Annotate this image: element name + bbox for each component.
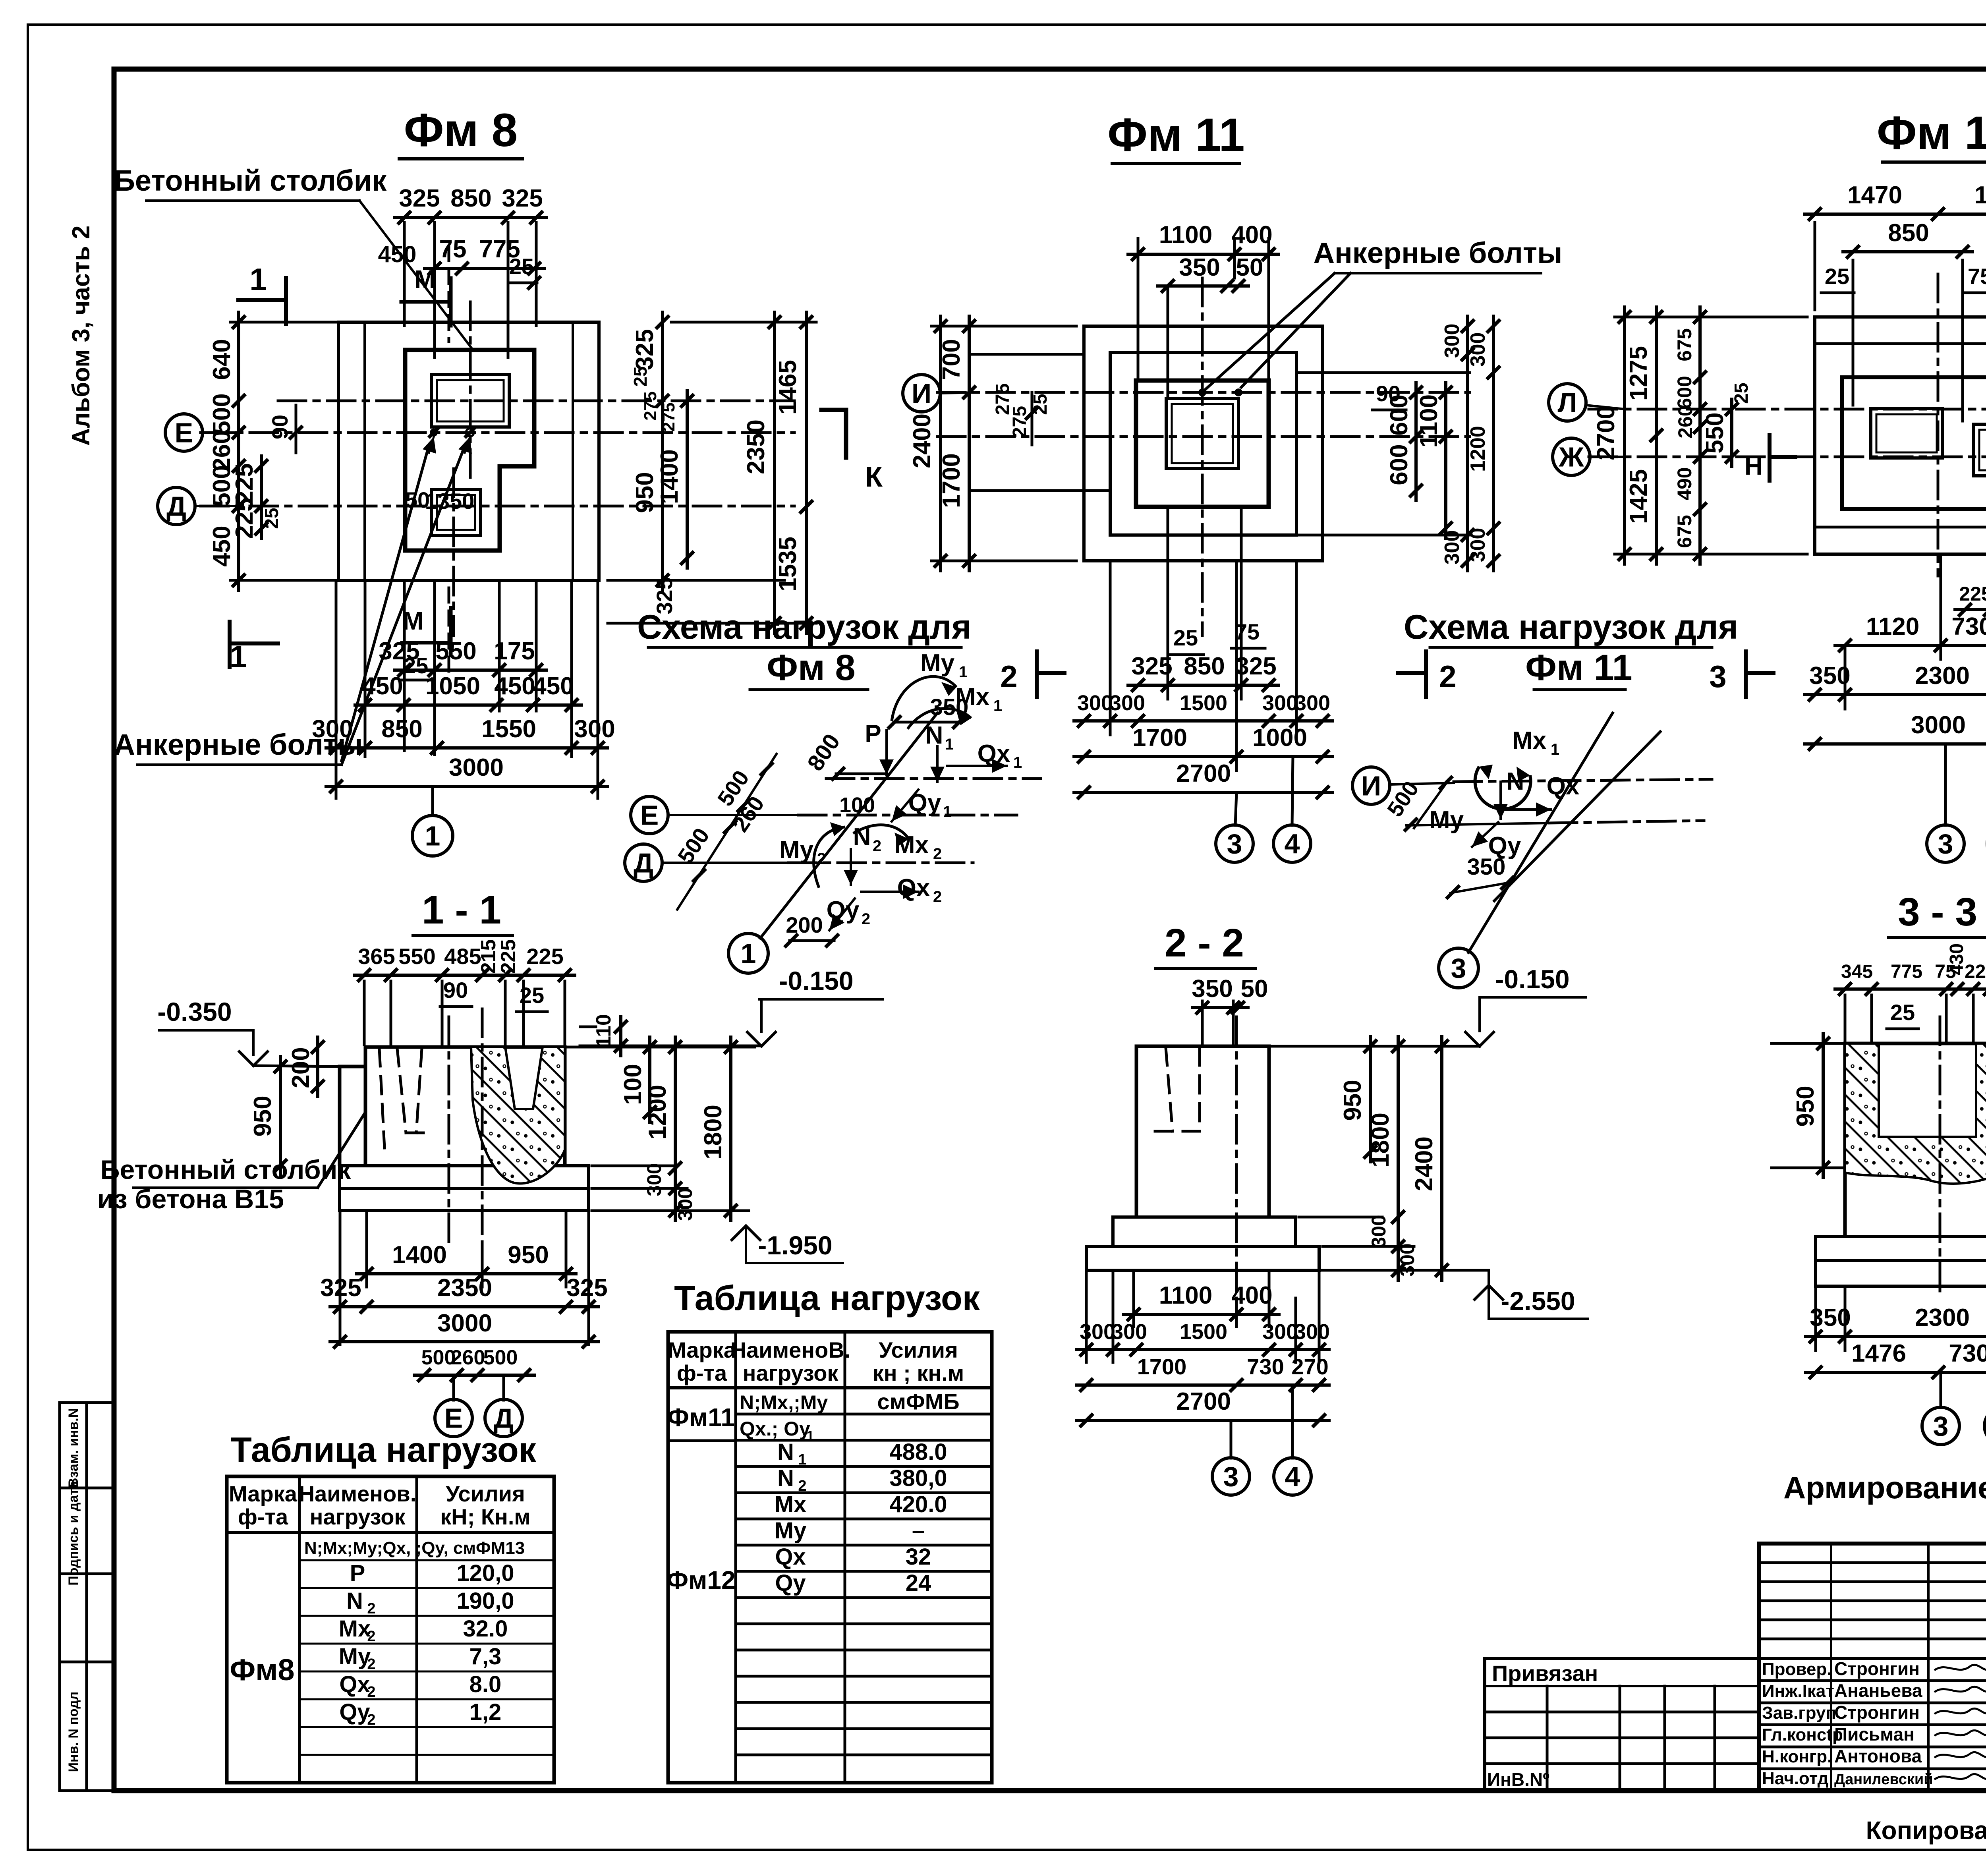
svg-text:кн ; кн.м: кн ; кн.м — [873, 1360, 964, 1385]
svg-text:N: N — [777, 1465, 794, 1491]
FM12 footing slab outline — [1815, 317, 1986, 554]
FM12 axis Zh centerline — [1589, 456, 1986, 458]
svg-text:300: 300 — [1262, 691, 1298, 715]
svg-text:Марка: Марка — [668, 1337, 736, 1362]
svg-text:850: 850 — [450, 185, 491, 212]
FM8 bottom dim 450 1050 450 450 — [364, 580, 367, 757]
svg-text:НаименоВ.: НаименоВ. — [730, 1337, 851, 1362]
svg-text:225: 225 — [231, 498, 258, 539]
svg-text:420.0: 420.0 — [889, 1492, 947, 1517]
FM12 left dim chain 2700 — [1623, 307, 1626, 564]
svg-text:Фм 8: Фм 8 — [767, 647, 855, 688]
svg-text:ф-та: ф-та — [238, 1504, 288, 1529]
svg-text:Нач.отд: Нач.отд — [1762, 1769, 1829, 1788]
svg-text:N: N — [777, 1439, 794, 1465]
svg-text:1: 1 — [798, 1451, 806, 1468]
svg-text:К: К — [865, 461, 883, 493]
svg-text:Армирование ф-тов см. лист: Армирование ф-тов см. лист — [1783, 1470, 1986, 1505]
svg-text:25: 25 — [1731, 383, 1752, 404]
svg-text:32: 32 — [906, 1544, 931, 1570]
section 2-2 void dashed — [1166, 1048, 1173, 1131]
svg-text:325: 325 — [379, 638, 419, 665]
leaders to circles 3 4 (2-2) — [1230, 1420, 1233, 1458]
svg-text:Гл.консtр: Гл.консtр — [1762, 1725, 1843, 1745]
FM12 right anchor plate — [1974, 424, 1986, 476]
section 2-2 bottom dim 1100 400 — [1132, 1273, 1135, 1327]
FM11 top dim 1100 400 — [1137, 238, 1140, 381]
section 3-3 top dim chain — [1844, 995, 1847, 1041]
svg-text:225: 225 — [1959, 583, 1986, 605]
svg-text:7,3: 7,3 — [469, 1644, 502, 1669]
FM12 axis L centerline — [1589, 408, 1986, 411]
title block main frame — [1759, 1544, 1986, 1791]
leaders to axis circles E D — [452, 1375, 455, 1400]
FM12 left anchor plate — [1871, 409, 1942, 458]
section M cut line top — [448, 246, 450, 342]
section 2-2 footing slab — [1086, 1246, 1319, 1270]
section 2-2 axis circle 4 — [1274, 1458, 1311, 1495]
FM11 horizontal plank lines — [969, 353, 1084, 356]
svg-text:1: 1 — [1551, 741, 1559, 758]
svg-text:Фм8: Фм8 — [230, 1653, 294, 1687]
svg-text:90: 90 — [443, 978, 468, 1003]
svg-text:25: 25 — [520, 983, 544, 1008]
svg-text:325: 325 — [566, 1274, 607, 1302]
svg-text:325: 325 — [502, 185, 543, 212]
svg-text:100: 100 — [619, 1064, 647, 1105]
FM8 bottom dim 300 850 1550 300 — [335, 580, 338, 798]
svg-text:325: 325 — [631, 329, 659, 370]
svg-text:1425: 1425 — [1625, 469, 1652, 524]
svg-text:Бетонный столбик: Бетонный столбик — [114, 164, 387, 197]
svg-text:Мх: Мх — [775, 1492, 807, 1517]
svg-text:225: 225 — [1965, 961, 1986, 982]
FM12 top dim 850 — [1852, 260, 1855, 405]
svg-text:1: 1 — [249, 262, 267, 297]
svg-text:485: 485 — [444, 944, 481, 969]
section 1-1 bottom dim 2350 — [339, 1213, 342, 1345]
svg-text:Qу: Qу — [908, 789, 941, 817]
FM8 right dim chain 1465 1535 — [805, 312, 808, 633]
svg-text:1800: 1800 — [1367, 1113, 1394, 1167]
svg-text:300: 300 — [312, 715, 353, 743]
FM11 bottom dim 1700 1000 — [1235, 561, 1238, 771]
FM11 left dim chain 700 / 1700 — [968, 316, 971, 571]
svg-text:300: 300 — [1294, 1320, 1330, 1344]
section 2-2 bottom dim 1700 730 270 — [1076, 1383, 1329, 1387]
FM11 axis I centerline — [937, 391, 1470, 394]
svg-text:300: 300 — [1368, 1215, 1390, 1248]
svg-text:Фм 11: Фм 11 — [1525, 647, 1632, 688]
svg-text:1: 1 — [1013, 754, 1022, 771]
section 3-3 bottom dim 350 2300 350 — [1814, 1289, 1817, 1350]
svg-text:400: 400 — [1231, 221, 1272, 249]
axis circle E — [165, 414, 203, 451]
svg-text:400: 400 — [1231, 1282, 1272, 1309]
FM12 bottom dim 350 2300 350 — [1844, 645, 1847, 709]
svg-text:N: N — [925, 722, 943, 749]
axis circle 3 (FM12) — [1927, 825, 1964, 862]
svg-text:Стронгин: Стронгин — [1834, 1658, 1920, 1679]
FM11 left dim chain 2400 — [939, 316, 942, 571]
svg-text:225: 225 — [497, 939, 520, 974]
svg-text:Провер.: Провер. — [1762, 1660, 1831, 1679]
section 3-3 centerlines — [1939, 1017, 1942, 1295]
svg-text:Усилия: Усилия — [446, 1481, 525, 1506]
svg-text:Бетонный столбик: Бетонный столбик — [100, 1155, 352, 1185]
svg-text:675: 675 — [1673, 328, 1696, 361]
svg-text:ИнВ.Nº: ИнВ.Nº — [1487, 1769, 1549, 1790]
svg-text:Д: Д — [634, 848, 653, 879]
svg-text:200: 200 — [287, 1047, 315, 1088]
FM8 vertical centerline lower — [452, 469, 455, 636]
svg-text:Qх: Qх — [775, 1544, 806, 1570]
FM11 pedestal outline — [1136, 381, 1269, 507]
axis E centerline — [201, 431, 794, 434]
svg-text:500: 500 — [208, 393, 236, 434]
svg-text:1200: 1200 — [644, 1085, 671, 1140]
FM8 pedestal outline (stepped) — [405, 350, 534, 551]
svg-text:365: 365 — [358, 944, 395, 969]
FM8 right dim chain 2350 — [773, 312, 776, 633]
svg-text:Инв. N подл: Инв. N подл — [66, 1692, 81, 1772]
svg-text:325: 325 — [399, 185, 440, 212]
svg-text:2: 2 — [367, 1600, 375, 1617]
svg-text:2: 2 — [1439, 659, 1456, 694]
svg-text:Р: Р — [865, 720, 881, 748]
svg-text:1 - 1: 1 - 1 — [422, 888, 501, 932]
leaders to FM11 bolts — [1206, 273, 1335, 389]
svg-text:3000: 3000 — [449, 754, 504, 781]
section 3-3 axis circle 3 — [1922, 1407, 1959, 1445]
svg-text:1530: 1530 — [1974, 182, 1986, 209]
svg-text:325: 325 — [1131, 653, 1172, 680]
svg-text:2: 2 — [367, 1684, 375, 1700]
svg-text:1470: 1470 — [1847, 182, 1902, 209]
FM11 bottom dim 2700 — [1074, 791, 1333, 794]
svg-text:1: 1 — [425, 821, 440, 852]
FM11 axis K centerline — [937, 435, 1470, 438]
svg-text:490: 490 — [1673, 467, 1696, 500]
svg-text:1000: 1000 — [1252, 724, 1307, 752]
svg-text:Н: Н — [1745, 452, 1763, 480]
svg-text:950: 950 — [631, 472, 659, 513]
svg-text:1800: 1800 — [699, 1105, 727, 1159]
svg-text:Мх: Мх — [1512, 727, 1547, 754]
svg-text:кН; Кн.м: кН; Кн.м — [440, 1504, 531, 1529]
svg-text:1476: 1476 — [1851, 1340, 1906, 1367]
section 1-1 centerline — [481, 1009, 484, 1243]
svg-text:3: 3 — [1933, 1411, 1949, 1442]
svg-text:Подпись и дата: Подпись и дата — [66, 1480, 81, 1586]
FM12 middle step outline — [1842, 377, 1986, 509]
svg-text:Ж: Ж — [1558, 442, 1584, 473]
svg-text:нагрузок: нагрузок — [310, 1504, 406, 1529]
svg-text:И: И — [912, 378, 931, 409]
section 3-3 left dim 950 — [1772, 1042, 1842, 1045]
svg-text:350: 350 — [1809, 662, 1850, 690]
svg-text:Усилия: Усилия — [879, 1337, 958, 1362]
svg-text:300: 300 — [574, 715, 615, 743]
svg-text:200: 200 — [786, 912, 823, 937]
svg-text:775: 775 — [1891, 961, 1922, 982]
FM12 bottom dim 1120 730 450 — [1940, 554, 1942, 659]
svg-text:Д: Д — [166, 491, 186, 522]
svg-text:50: 50 — [1236, 254, 1263, 281]
FM8 left dim chain 225 225 — [260, 456, 263, 539]
svg-text:275: 275 — [1009, 406, 1030, 438]
axis circle 4 (FM11) — [1273, 825, 1311, 862]
title block signature rows — [1759, 1679, 1986, 1682]
FM11 right dim chains — [1466, 316, 1469, 571]
svg-text:Му: Му — [775, 1518, 807, 1544]
FM8 formwork plank lines — [363, 322, 366, 580]
svg-text:Фм 11: Фм 11 — [1107, 109, 1245, 161]
scheme FM11 main diagonal A — [1468, 713, 1613, 952]
FM11 middle step outline — [1110, 352, 1296, 535]
svg-text:2700: 2700 — [1176, 760, 1231, 787]
svg-text:2400: 2400 — [1410, 1136, 1438, 1191]
svg-text:Му: Му — [779, 836, 814, 864]
svg-text:730: 730 — [1951, 613, 1986, 640]
svg-text:2300: 2300 — [1915, 1304, 1970, 1331]
svg-text:3: 3 — [1223, 1461, 1239, 1492]
svg-text:100: 100 — [839, 793, 875, 817]
svg-text:N;Мх,;Му: N;Мх,;Му — [740, 1391, 828, 1414]
svg-text:730: 730 — [1247, 1354, 1284, 1379]
svg-text:1350: 1350 — [425, 489, 475, 514]
svg-text:Марка: Марка — [229, 1481, 298, 1506]
svg-text:1: 1 — [959, 663, 968, 681]
svg-text:600: 600 — [1385, 444, 1413, 485]
FM12 plank lines top and bottom — [1815, 342, 1986, 345]
svg-text:25: 25 — [261, 508, 282, 529]
svg-text:Стронгин: Стронгин — [1834, 1702, 1920, 1723]
svg-text:25: 25 — [1890, 1000, 1915, 1025]
FM11 anchor plate — [1166, 398, 1238, 469]
svg-text:Фм11: Фм11 — [667, 1403, 735, 1432]
svg-text:8.0: 8.0 — [469, 1671, 502, 1697]
svg-text:75: 75 — [1968, 264, 1986, 289]
svg-text:И: И — [1361, 771, 1381, 802]
FM8 right dim chain 325/1400/950/325 — [661, 312, 664, 590]
svg-text:Ананьева: Ананьева — [1834, 1680, 1922, 1701]
svg-text:1: 1 — [993, 697, 1002, 715]
svg-text:300: 300 — [1294, 691, 1330, 715]
section 1-1 axis circle E — [435, 1399, 472, 1437]
svg-text:1: 1 — [945, 736, 954, 753]
svg-text:50: 50 — [1241, 975, 1268, 1003]
svg-text:1: 1 — [943, 803, 952, 821]
svg-text:Qх: Qх — [897, 874, 930, 902]
svg-text:2: 2 — [933, 888, 942, 906]
svg-text:110: 110 — [592, 1014, 615, 1047]
svg-text:Е: Е — [444, 1403, 463, 1434]
svg-text:Таблица нагрузок: Таблица нагрузок — [674, 1278, 980, 1318]
svg-text:90: 90 — [1376, 381, 1401, 406]
svg-text:300: 300 — [1466, 332, 1489, 367]
svg-text:Н.конгр.: Н.конгр. — [1762, 1747, 1832, 1766]
svg-text:1100: 1100 — [1159, 1282, 1213, 1309]
svg-text:N: N — [346, 1588, 363, 1614]
section 2-2 axis circle 3 — [1212, 1458, 1250, 1495]
FM8 dim 75 775 — [425, 267, 544, 270]
svg-text:-0.350: -0.350 — [157, 997, 232, 1026]
FM8 footing slab outline — [338, 322, 599, 580]
scheme FM11 axis circle 3 — [1439, 948, 1478, 988]
title block small grid left — [1759, 1561, 1986, 1564]
svg-text:300: 300 — [1080, 1320, 1115, 1344]
svg-text:430: 430 — [1946, 943, 1967, 975]
leaders to circles 3 4 — [1235, 792, 1236, 825]
left attachment table — [1485, 1658, 1759, 1791]
svg-text:550: 550 — [398, 944, 435, 969]
leaders to circles 3 4 (3-3) — [1940, 1372, 1942, 1408]
section 1-1 anchor void dashed left — [397, 1049, 406, 1133]
svg-text:Копировал: Боброва: Копировал: Боброва — [1866, 1816, 1986, 1845]
svg-text:640: 640 — [208, 339, 236, 380]
svg-text:120,0: 120,0 — [456, 1560, 514, 1586]
section 3-3 hatched concrete U-walls — [1845, 1043, 1986, 1184]
axis circle 1 leader — [431, 786, 434, 815]
axis circle L — [1549, 384, 1586, 421]
FM8 vertical centerline upper — [469, 302, 472, 479]
section 2-2 top dims 350 50 — [1201, 1001, 1204, 1045]
left margin stamp boxes — [60, 1403, 114, 1791]
axis circle D — [158, 487, 195, 525]
svg-text:Данилевский: Данилевский — [1834, 1771, 1933, 1788]
svg-text:1100: 1100 — [1415, 394, 1443, 448]
svg-text:1100: 1100 — [1159, 221, 1213, 249]
svg-text:1400: 1400 — [656, 449, 683, 504]
FM8 bottom dim 325 550 175 — [403, 580, 406, 751]
svg-text:Му: Му — [920, 649, 955, 677]
scheme FM8 dim diagonal 500 260 500 — [677, 754, 777, 910]
section 1-1 bottom dims 1400 950 — [365, 1213, 368, 1287]
svg-text:1400: 1400 — [392, 1241, 447, 1269]
svg-text:600: 600 — [1673, 376, 1696, 409]
svg-text:950: 950 — [1792, 1086, 1819, 1126]
axis K section flag right — [844, 410, 848, 458]
signatures squiggles — [1934, 1665, 1986, 1670]
svg-text:4: 4 — [1285, 829, 1300, 860]
svg-text:450: 450 — [362, 672, 403, 700]
svg-text:3 - 3: 3 - 3 — [1898, 890, 1977, 934]
svg-text:2: 2 — [1000, 659, 1017, 694]
FM12 bottom dim 3000 — [1805, 742, 1986, 746]
svg-text:Анкерные болты: Анкерные болты — [1314, 236, 1563, 269]
svg-text:1700: 1700 — [1137, 1354, 1187, 1379]
leader concrete post — [318, 1112, 365, 1188]
anchor bolts FM11 — [1198, 388, 1206, 396]
svg-text:350: 350 — [1810, 1304, 1851, 1331]
scheme FM8 axis circle 1 — [728, 933, 768, 973]
svg-text:300: 300 — [1109, 691, 1145, 715]
scheme FM8 axis D dashdot — [788, 862, 973, 864]
section 2-2 centerline — [1235, 1017, 1238, 1295]
svg-text:Qу: Qу — [775, 1570, 806, 1596]
svg-text:Фм 8: Фм 8 — [404, 104, 518, 156]
svg-text:325: 325 — [320, 1274, 361, 1302]
svg-text:225: 225 — [526, 944, 563, 969]
svg-text:Му: Му — [1430, 806, 1464, 834]
FM8 left dim chain 640 500 260 500 450 — [237, 312, 240, 590]
svg-text:90: 90 — [267, 415, 292, 439]
svg-text:Привязан: Привязан — [1492, 1661, 1598, 1686]
svg-text:190,0: 190,0 — [456, 1588, 514, 1614]
svg-text:350: 350 — [1179, 254, 1220, 281]
svg-text:300: 300 — [1111, 1320, 1147, 1344]
axis I centerline — [278, 400, 794, 402]
FM11 footing slab outline — [1084, 326, 1323, 561]
svg-text:24: 24 — [906, 1570, 931, 1596]
left load table grid — [227, 1476, 554, 1783]
FM11 top dim 350 50 — [1158, 284, 1248, 288]
section 2-2 bottom dim 2700 — [1076, 1419, 1329, 1422]
scheme FM8 axis circle D — [625, 844, 662, 881]
svg-text:275: 275 — [659, 402, 678, 431]
svg-text:75: 75 — [439, 236, 467, 263]
svg-text:300: 300 — [1466, 528, 1489, 562]
svg-text:2: 2 — [873, 837, 881, 855]
svg-text:из бетона В15: из бетона В15 — [97, 1184, 284, 1214]
svg-text:550: 550 — [1701, 412, 1729, 453]
svg-text:N;Мх;Му;Qх, ;Qу, смФМ13: N;Мх;Му;Qх, ;Qу, смФМ13 — [304, 1538, 525, 1558]
svg-text:950: 950 — [508, 1241, 549, 1269]
FM11 vertical centerline — [1201, 278, 1204, 636]
section 1-1 top dim chain — [363, 981, 366, 1045]
svg-text:300: 300 — [1441, 324, 1464, 358]
svg-text:2300: 2300 — [1915, 662, 1970, 690]
section 3-3 pedestal body — [1845, 1043, 1986, 1236]
svg-text:1,2: 1,2 — [469, 1699, 502, 1725]
svg-text:2: 2 — [367, 1628, 375, 1645]
svg-text:3: 3 — [1938, 829, 1953, 860]
svg-text:3000: 3000 — [1911, 711, 1966, 739]
svg-text:1465: 1465 — [774, 360, 802, 415]
svg-text:300: 300 — [674, 1188, 696, 1221]
svg-text:488.0: 488.0 — [889, 1439, 947, 1465]
FM8 upper anchor plate — [431, 375, 509, 427]
svg-text:260: 260 — [1674, 405, 1696, 438]
svg-text:350: 350 — [1467, 854, 1506, 880]
FM12 left dim 550 — [1730, 399, 1733, 467]
svg-text:850: 850 — [1184, 653, 1225, 680]
svg-text:300: 300 — [1441, 530, 1464, 565]
svg-text:Qх: Qх — [339, 1671, 370, 1697]
svg-text:2700: 2700 — [1592, 406, 1620, 460]
FM11 bottom dim 300 300 1500 300 300 — [1109, 561, 1112, 735]
section 3-3 axis circle 4 — [1984, 1407, 1986, 1445]
svg-text:2350: 2350 — [437, 1274, 492, 1302]
scheme FM8 main diagonal axis 1 — [760, 713, 937, 938]
svg-text:850: 850 — [381, 715, 422, 743]
svg-text:2 - 2: 2 - 2 — [1165, 921, 1244, 965]
axis D centerline — [201, 505, 794, 508]
leaders to circles 3 4 (FM12) — [1944, 744, 1947, 825]
svg-text:345: 345 — [1841, 961, 1873, 982]
svg-text:Р: Р — [350, 1560, 365, 1586]
FM8 top dim chain 325 850 325 — [403, 222, 406, 326]
svg-text:450: 450 — [494, 672, 535, 700]
leaders to bolts — [342, 448, 428, 761]
svg-text:1500: 1500 — [1180, 1320, 1227, 1344]
svg-text:2: 2 — [933, 845, 942, 863]
FM12 left dim chain 1275 1425 — [1655, 307, 1658, 564]
section 2-2 bottom dim 300 300 1500 300 300 — [1085, 1273, 1088, 1362]
section 1-1 left dims 950 200 — [279, 1057, 282, 1176]
svg-text:N: N — [1507, 768, 1524, 795]
